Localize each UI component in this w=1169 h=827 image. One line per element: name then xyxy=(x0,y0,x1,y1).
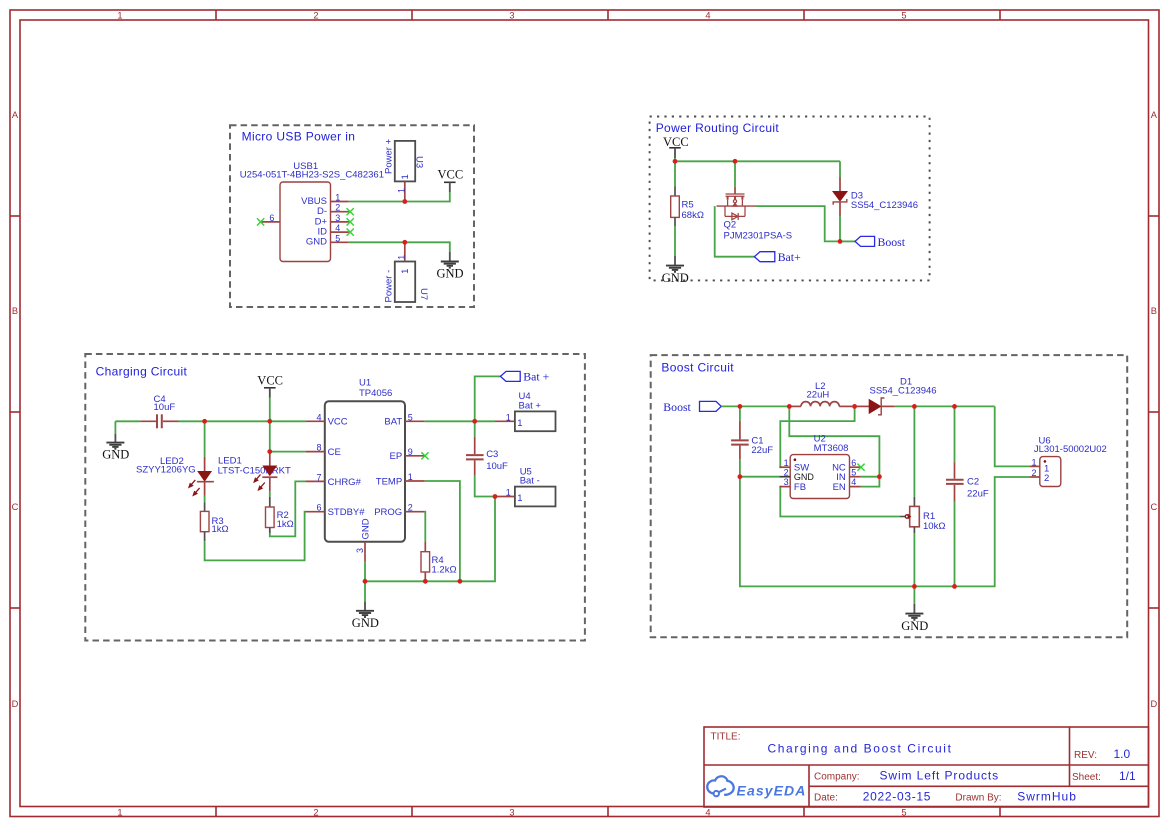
svg-text:GND: GND xyxy=(361,518,372,539)
wire GND to C4 xyxy=(115,420,140,422)
svg-text:VCC: VCC xyxy=(663,135,689,149)
section box: Micro USB Power in xyxy=(230,125,474,307)
svg-text:1: 1 xyxy=(1031,457,1036,467)
title block xyxy=(704,727,1149,807)
svg-text:8: 8 xyxy=(316,443,321,453)
junction node TEMP/GND rail xyxy=(458,579,463,584)
junction node R1/bottom rail xyxy=(912,584,917,589)
wire VCC to CE node xyxy=(269,421,271,451)
junction node L2 left xyxy=(787,404,792,409)
wire VCC rail (charging) xyxy=(205,420,306,422)
svg-text:A: A xyxy=(12,110,19,120)
svg-text:VCC: VCC xyxy=(438,168,464,182)
wire Q2 gate to Bat+ xyxy=(715,206,755,257)
svg-text:STDBY#: STDBY# xyxy=(328,507,366,518)
no-connect X pin6 xyxy=(257,218,264,225)
wire R2 to CHRG# xyxy=(270,481,306,536)
svg-text:U3: U3 xyxy=(414,156,425,168)
connector U3 xyxy=(384,138,425,201)
junction node VBUS/U3 xyxy=(402,199,407,204)
capacitor C3 xyxy=(466,421,508,475)
svg-text:4: 4 xyxy=(335,223,340,233)
svg-text:Boost: Boost xyxy=(663,400,691,414)
ground GND (usb) xyxy=(437,252,464,281)
svg-text:1kΩ: 1kΩ xyxy=(277,519,294,530)
svg-text:6: 6 xyxy=(851,458,856,468)
resistor R2 xyxy=(266,497,294,533)
wire GND down (charging bottom) xyxy=(364,581,366,601)
svg-text:68kΩ: 68kΩ xyxy=(682,210,704,221)
svg-text:2: 2 xyxy=(1044,473,1049,484)
svg-text:1: 1 xyxy=(117,11,122,21)
svg-text:SwrmHub: SwrmHub xyxy=(1017,789,1077,803)
net port Boost (boost) xyxy=(663,400,721,414)
wire R1 top xyxy=(913,406,915,496)
svg-text:3: 3 xyxy=(784,477,789,487)
no-connect X pin3 xyxy=(347,218,354,225)
resistor R5 xyxy=(671,187,704,227)
svg-text:GND: GND xyxy=(901,619,928,633)
connector U4 xyxy=(495,391,556,431)
svg-text:C: C xyxy=(1150,502,1157,512)
wire to LED2 xyxy=(204,421,206,457)
capacitor C2 xyxy=(946,462,989,501)
svg-text:6: 6 xyxy=(269,213,274,223)
junction node IN/EN xyxy=(877,474,882,479)
svg-text:MT3608: MT3608 xyxy=(814,443,849,454)
junction node C1/GND pin xyxy=(738,474,743,479)
diode D1 xyxy=(855,377,937,415)
wire Q2 drain xyxy=(734,161,736,187)
svg-text:2: 2 xyxy=(313,11,318,21)
svg-text:C: C xyxy=(12,502,19,512)
svg-text:1kΩ: 1kΩ xyxy=(212,524,229,535)
wire LED1 to R2 xyxy=(269,491,271,497)
junction node C2/bottom rail xyxy=(952,584,957,589)
capacitor C1 xyxy=(731,406,773,459)
svg-text:22uF: 22uF xyxy=(967,489,989,500)
connector U7 xyxy=(384,242,430,302)
connector USB1 xyxy=(240,161,384,262)
junction node GND/U7 xyxy=(402,240,407,245)
svg-text:BAT: BAT xyxy=(384,417,402,428)
svg-text:4: 4 xyxy=(316,412,321,422)
svg-text:Swim Left Products: Swim Left Products xyxy=(880,769,1000,783)
svg-text:B: B xyxy=(12,306,18,316)
svg-text:A: A xyxy=(1151,110,1158,120)
svg-text:5: 5 xyxy=(901,11,906,21)
junction node GND rail left xyxy=(363,579,368,584)
svg-text:VCC: VCC xyxy=(257,373,283,387)
svg-text:R5: R5 xyxy=(682,200,694,211)
svg-text:D: D xyxy=(12,699,19,709)
svg-text:PJM2301PSA-S: PJM2301PSA-S xyxy=(724,231,793,242)
section box: Power Routing Circuit xyxy=(650,117,930,281)
svg-text:Bat +: Bat + xyxy=(523,369,549,383)
wire GND drop (boost) xyxy=(913,586,915,603)
junction node D1/R1 xyxy=(912,404,917,409)
svg-text:Drawn By:: Drawn By: xyxy=(955,792,1001,803)
svg-text:VCC: VCC xyxy=(328,417,348,428)
wire VBUS net xyxy=(349,192,450,202)
wire Boost node to flag xyxy=(840,240,855,242)
svg-text:GND: GND xyxy=(102,448,129,462)
no-connect X pin EP xyxy=(421,452,428,459)
no-connect X pin4 xyxy=(347,229,354,236)
wire VCC symbol down xyxy=(269,398,271,422)
svg-text:EN: EN xyxy=(833,482,846,493)
svg-text:10uF: 10uF xyxy=(154,402,176,413)
svg-text:1: 1 xyxy=(408,472,413,482)
svg-text:GND: GND xyxy=(437,267,464,281)
no-connect X pin2 xyxy=(347,208,354,215)
power flag VCC (usb) xyxy=(438,168,464,193)
svg-text:3: 3 xyxy=(355,548,365,553)
svg-text:TEMP: TEMP xyxy=(376,476,402,487)
svg-text:Boost: Boost xyxy=(878,235,906,249)
EasyEDA logo xyxy=(707,776,806,798)
wire L2 left down to IN/EN xyxy=(789,406,879,476)
wire R1 bottom xyxy=(913,533,915,586)
no-connect X pin NC xyxy=(857,464,864,471)
svg-text:D: D xyxy=(1150,699,1157,709)
svg-text:9: 9 xyxy=(408,447,413,457)
svg-text:1: 1 xyxy=(397,188,407,193)
junction node VCC/LED1 xyxy=(267,419,272,424)
resistor R4 xyxy=(421,542,457,582)
svg-text:2: 2 xyxy=(335,203,340,213)
svg-text:5: 5 xyxy=(408,412,413,422)
connector U5 xyxy=(495,466,556,506)
svg-text:6: 6 xyxy=(316,503,321,513)
wire R5 bottom xyxy=(674,226,676,256)
svg-text:5: 5 xyxy=(901,808,906,818)
svg-text:FB: FB xyxy=(794,482,806,493)
svg-text:GND: GND xyxy=(662,271,689,285)
svg-text:2: 2 xyxy=(313,808,318,818)
IC U2 MT3608 xyxy=(779,434,860,499)
svg-text:10uF: 10uF xyxy=(486,461,508,472)
svg-text:1: 1 xyxy=(517,418,522,429)
svg-text:Power +: Power + xyxy=(384,138,395,174)
wire R5 top xyxy=(674,161,676,186)
junction node CE/LED1 xyxy=(267,449,272,454)
svg-text:LTST-C150KRKT: LTST-C150KRKT xyxy=(218,466,291,477)
svg-text:Charging Circuit: Charging Circuit xyxy=(96,365,188,379)
power flag VCC (routing) xyxy=(663,135,689,158)
junction node top/C2 xyxy=(952,404,957,409)
svg-text:GND: GND xyxy=(306,237,327,248)
svg-text:1: 1 xyxy=(400,174,411,179)
svg-text:TITLE:: TITLE: xyxy=(711,731,741,742)
junction node Boost xyxy=(838,239,843,244)
svg-text:Bat -: Bat - xyxy=(520,476,540,487)
wire BAT net xyxy=(425,420,475,422)
wire D3 anode xyxy=(839,161,841,177)
ground GND (routing) xyxy=(662,256,689,285)
svg-text:Charging and Boost Circuit: Charging and Boost Circuit xyxy=(768,741,953,755)
svg-text:GND: GND xyxy=(352,616,379,630)
svg-text:Company:: Company: xyxy=(814,772,860,783)
svg-text:4: 4 xyxy=(705,808,710,818)
wire VCC rail (routing) xyxy=(675,158,840,161)
svg-text:Bat +: Bat + xyxy=(519,400,542,411)
wire U5 node down xyxy=(365,497,495,582)
svg-text:C2: C2 xyxy=(967,477,979,488)
svg-text:2: 2 xyxy=(408,503,413,513)
ground GND (boost) xyxy=(901,604,928,633)
svg-text:Date:: Date: xyxy=(814,792,838,803)
wire Boost flag to C1 xyxy=(721,405,740,407)
svg-text:5: 5 xyxy=(851,467,856,477)
svg-text:3: 3 xyxy=(509,808,514,818)
LED LED2 xyxy=(136,456,214,496)
wire BAT to U4 xyxy=(475,420,495,422)
wire CE xyxy=(270,451,306,453)
svg-text:2022-03-15: 2022-03-15 xyxy=(863,789,931,803)
svg-text:Power Routing Circuit: Power Routing Circuit xyxy=(656,121,780,135)
net port Bat + (charging) xyxy=(500,369,549,383)
svg-text:EasyEDA: EasyEDA xyxy=(737,782,807,798)
junction node BAT xyxy=(472,419,477,424)
wire U6 pin1 from top rail xyxy=(995,406,1030,466)
wire C2 bottom xyxy=(954,502,956,587)
wire Q2 source to Boost node xyxy=(755,206,840,241)
svg-text:7: 7 xyxy=(316,472,321,482)
IC U1 TP4056 xyxy=(305,378,425,562)
svg-text:1: 1 xyxy=(397,255,407,260)
transistor Q2 xyxy=(717,187,793,242)
svg-text:U1: U1 xyxy=(359,378,371,389)
svg-text:5: 5 xyxy=(335,233,340,243)
wire PROG to R4 xyxy=(424,512,427,542)
svg-text:1: 1 xyxy=(506,488,511,498)
junction node VCC/Q2 xyxy=(733,159,738,164)
svg-text:Power -: Power - xyxy=(384,270,395,303)
svg-text:22uH: 22uH xyxy=(807,389,830,400)
svg-text:10kΩ: 10kΩ xyxy=(923,521,945,532)
wire SW riser to L2 right xyxy=(780,406,855,467)
wire BAT to Bat+ flag xyxy=(475,376,501,421)
svg-text:Micro USB Power in: Micro USB Power in xyxy=(242,130,356,144)
junction node VCC/R5 xyxy=(673,159,678,164)
wire bottom rail (boost) xyxy=(914,585,954,587)
svg-text:JL301-50002U02: JL301-50002U02 xyxy=(1034,444,1107,455)
wire C1 node down to bottom rail xyxy=(740,477,915,587)
svg-text:1: 1 xyxy=(400,269,411,274)
junction node L2 right xyxy=(852,404,857,409)
svg-text:SZYY1206YG: SZYY1206YG xyxy=(136,464,196,475)
wire EN jog xyxy=(861,477,880,487)
svg-text:Q2: Q2 xyxy=(724,220,737,231)
wire R3 to STDBY# xyxy=(205,512,306,561)
svg-text:Boost Circuit: Boost Circuit xyxy=(661,361,734,375)
svg-text:22uF: 22uF xyxy=(751,445,773,456)
wire C1 node to U2 GND pin xyxy=(740,476,780,478)
svg-text:REV:: REV: xyxy=(1074,750,1097,761)
svg-text:1: 1 xyxy=(117,808,122,818)
svg-text:CHRG#: CHRG# xyxy=(328,477,362,488)
svg-text:U7: U7 xyxy=(418,288,429,300)
svg-text:Sheet:: Sheet: xyxy=(1072,772,1101,783)
svg-text:Bat+: Bat+ xyxy=(778,250,801,264)
svg-text:1: 1 xyxy=(506,412,511,422)
connector U6 xyxy=(1030,436,1107,487)
svg-text:1: 1 xyxy=(784,458,789,468)
svg-text:EP: EP xyxy=(390,451,403,462)
wire GND net (usb) xyxy=(349,242,450,251)
svg-text:3: 3 xyxy=(335,213,340,223)
section box: Charging Circuit xyxy=(85,354,585,641)
svg-text:4: 4 xyxy=(851,477,856,487)
svg-text:SS54_C123946: SS54_C123946 xyxy=(851,200,918,211)
svg-text:TP4056: TP4056 xyxy=(359,388,392,399)
wire C3 to U5 node xyxy=(475,476,495,497)
wire LED2 to R3 xyxy=(204,496,206,502)
svg-text:2: 2 xyxy=(1031,468,1036,478)
capacitor C4 xyxy=(140,394,178,428)
ground GND (charging bottom) xyxy=(352,602,379,630)
wire IN jog xyxy=(861,476,880,478)
junction node Boost/C1 xyxy=(738,404,743,409)
junction node R4/GND rail xyxy=(423,579,428,584)
svg-text:1/1: 1/1 xyxy=(1119,769,1136,783)
wire C1 to GND pin2 node xyxy=(739,460,741,477)
wire U1 GND pin3 down xyxy=(364,562,366,582)
svg-text:CE: CE xyxy=(328,447,341,458)
wire TEMP xyxy=(425,481,460,581)
wire D3 cathode to Boost node xyxy=(839,216,841,241)
svg-text:1: 1 xyxy=(335,193,340,203)
svg-text:1: 1 xyxy=(517,493,522,504)
junction node C4/VCC xyxy=(202,419,207,424)
svg-text:3: 3 xyxy=(509,11,514,21)
junction node U5/C3 xyxy=(493,494,498,499)
svg-text:PROG: PROG xyxy=(374,507,402,518)
section box: Boost Circuit xyxy=(651,355,1127,637)
resistor R3 xyxy=(200,502,228,541)
svg-text:1.2kΩ: 1.2kΩ xyxy=(432,564,457,575)
svg-text:B: B xyxy=(1151,306,1157,316)
svg-text:GND: GND xyxy=(794,472,815,482)
inductor L2 xyxy=(789,381,854,407)
wire FB to R1 wiper xyxy=(780,487,900,517)
net port Bat+ xyxy=(754,250,801,264)
svg-text:C3: C3 xyxy=(486,449,498,460)
svg-text:SS54_C123946: SS54_C123946 xyxy=(870,386,937,397)
svg-text:U254-051T-4BH23-S2S_C482361: U254-051T-4BH23-S2S_C482361 xyxy=(240,169,384,180)
wire C2 top xyxy=(954,406,956,462)
ground GND (charging left) xyxy=(102,421,129,461)
wire boost top rail xyxy=(740,405,789,407)
LED LED1 xyxy=(218,452,291,492)
diode D3 xyxy=(833,177,918,216)
power flag VCC (charging) xyxy=(257,373,283,397)
net port Boost (routing) xyxy=(855,235,906,249)
svg-text:2: 2 xyxy=(784,467,789,477)
svg-text:4: 4 xyxy=(705,11,710,21)
wire D1 cathode to C2 rail xyxy=(895,405,995,407)
wire C4 to VCC rail xyxy=(179,420,205,422)
svg-text:1.0: 1.0 xyxy=(1114,747,1131,761)
potentiometer R1 xyxy=(900,497,945,533)
wire U6 pin2 to bottom rail xyxy=(955,477,1030,586)
